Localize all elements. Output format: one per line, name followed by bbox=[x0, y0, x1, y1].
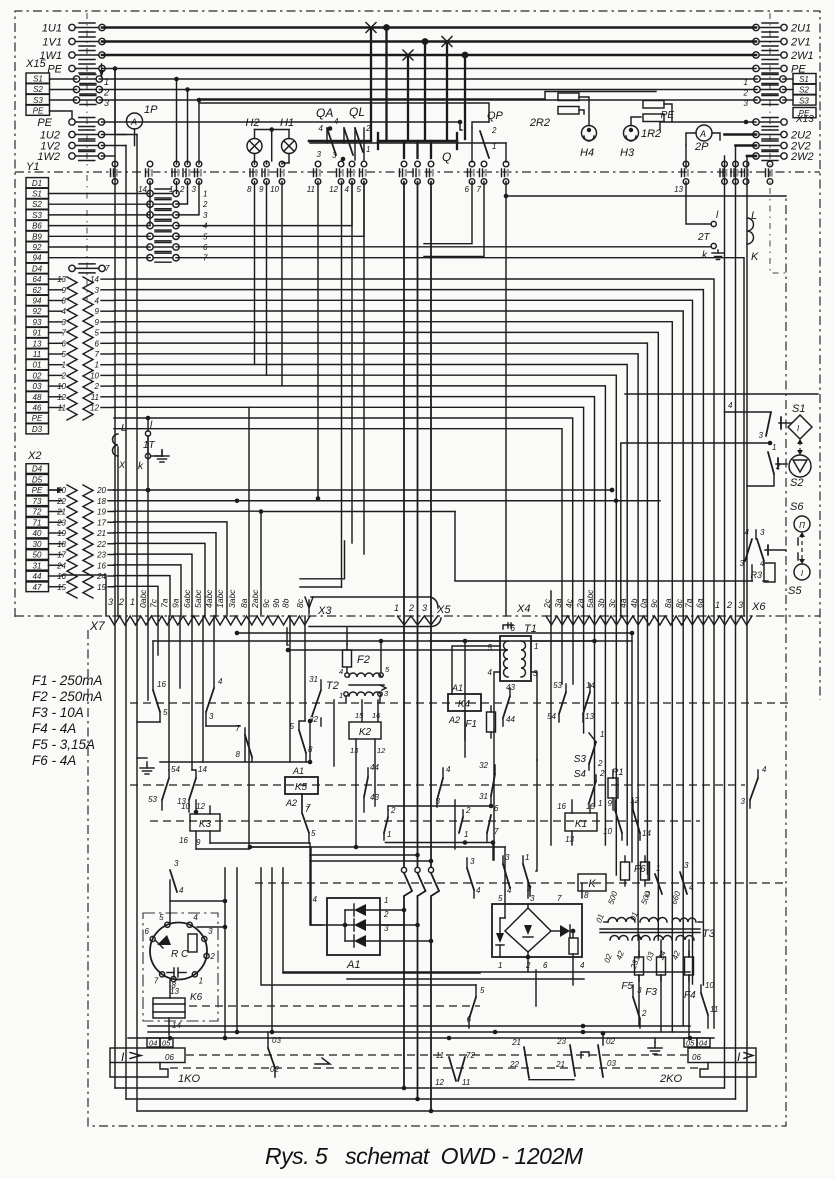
indicator S5 bbox=[794, 564, 810, 580]
svg-text:K2: K2 bbox=[359, 727, 372, 738]
frame X13 dashed line bbox=[770, 13, 786, 273]
divider contact 4 bbox=[349, 161, 355, 167]
wire X2 run y586 bbox=[114, 586, 158, 616]
svg-text:24: 24 bbox=[56, 561, 66, 570]
wire row S3 left bbox=[50, 99, 77, 101]
fuse F2 bbox=[343, 650, 352, 667]
svg-text:1: 1 bbox=[339, 691, 343, 700]
wire lamp top bus bbox=[255, 129, 290, 131]
svg-text:8a: 8a bbox=[663, 598, 673, 608]
divider contact 5 bbox=[361, 161, 367, 167]
svg-text:D3: D3 bbox=[32, 425, 43, 434]
wire power drop x=447 bbox=[446, 42, 448, 140]
svg-text:1: 1 bbox=[534, 642, 538, 651]
svg-text:S2: S2 bbox=[790, 477, 803, 489]
svg-text:4: 4 bbox=[488, 668, 493, 677]
svg-text:7: 7 bbox=[477, 185, 482, 194]
wire X2 row 18 bbox=[49, 500, 63, 502]
wire row7 right bbox=[176, 258, 744, 616]
svg-text:B9: B9 bbox=[32, 232, 42, 241]
svg-text:5: 5 bbox=[498, 894, 503, 903]
svg-text:S3: S3 bbox=[799, 96, 809, 105]
svg-text:X: X bbox=[118, 460, 126, 470]
svg-text:19: 19 bbox=[57, 529, 66, 538]
svg-text:4: 4 bbox=[179, 886, 184, 895]
svg-text:24: 24 bbox=[96, 572, 106, 581]
svg-text:10: 10 bbox=[57, 382, 66, 391]
svg-text:7: 7 bbox=[95, 350, 100, 359]
RC pin 3 bbox=[202, 936, 207, 941]
wire row6 right bbox=[176, 246, 711, 248]
wire power drop x=408 bbox=[407, 55, 409, 139]
svg-text:06: 06 bbox=[692, 1053, 701, 1062]
wire X2 run y532 bbox=[114, 533, 216, 616]
wire feeder n bbox=[638, 975, 640, 1026]
svg-text:48: 48 bbox=[33, 393, 42, 402]
svg-text:12: 12 bbox=[435, 1078, 444, 1087]
svg-text:QL: QL bbox=[349, 105, 365, 119]
svg-text:X15: X15 bbox=[25, 58, 46, 70]
wire T1 bottom pins bbox=[494, 672, 500, 730]
contact 1 2 f bbox=[655, 874, 662, 894]
svg-text:9: 9 bbox=[95, 307, 100, 316]
wire Y1 row 6 bbox=[49, 246, 151, 248]
svg-text:1: 1 bbox=[62, 361, 66, 370]
wire vertical x158 bbox=[157, 616, 159, 655]
wire rail 979 bbox=[347, 978, 584, 980]
svg-text:3: 3 bbox=[95, 286, 100, 295]
svg-text:21: 21 bbox=[96, 529, 106, 538]
resistor R1 bbox=[608, 778, 618, 798]
wire corner d bbox=[271, 868, 273, 1032]
wire X2 row 20 bbox=[49, 489, 63, 491]
svg-text:3: 3 bbox=[740, 559, 745, 568]
svg-text:2abc: 2abc bbox=[250, 589, 260, 609]
wire vertical x747 bbox=[746, 156, 748, 1111]
svg-text:H3: H3 bbox=[620, 147, 635, 159]
bridge cap bbox=[569, 938, 578, 954]
svg-text:11: 11 bbox=[58, 404, 66, 413]
contactor Q pole bbox=[403, 141, 405, 158]
svg-text:S2: S2 bbox=[799, 86, 809, 95]
svg-text:1: 1 bbox=[199, 976, 203, 985]
svg-text:04: 04 bbox=[699, 1039, 707, 1048]
connector frame arrow bbox=[305, 597, 313, 608]
svg-text:7c: 7c bbox=[149, 598, 159, 608]
svg-text:3: 3 bbox=[505, 853, 510, 862]
labels 04 05 bbox=[147, 1038, 160, 1047]
svg-text:30: 30 bbox=[33, 540, 42, 549]
contactor Q pole bbox=[430, 141, 432, 158]
wire top feed a bbox=[237, 632, 632, 634]
wire Y1 row 5 bbox=[49, 235, 151, 237]
svg-text:01: 01 bbox=[33, 361, 42, 370]
svg-text:F4: F4 bbox=[684, 990, 696, 1001]
wire corner e bbox=[283, 868, 480, 973]
svg-text:4b: 4b bbox=[629, 598, 639, 608]
svg-text:K3: K3 bbox=[199, 819, 212, 830]
svg-text:1: 1 bbox=[384, 896, 388, 905]
junction crimp bbox=[366, 23, 376, 33]
svg-text:9: 9 bbox=[259, 185, 264, 194]
svg-text:K6: K6 bbox=[190, 992, 203, 1003]
svg-text:2: 2 bbox=[179, 185, 185, 194]
terminal Y1 93 bbox=[26, 317, 49, 327]
frame X1 dashed line bbox=[86, 175, 88, 300]
svg-text:A2: A2 bbox=[285, 798, 297, 808]
svg-text:1R2: 1R2 bbox=[641, 128, 661, 140]
RC diode bbox=[157, 935, 171, 945]
divider contact 3 bbox=[196, 161, 202, 167]
wire power cont bbox=[403, 896, 405, 1088]
svg-text:64: 64 bbox=[33, 275, 42, 284]
svg-text:T3: T3 bbox=[702, 928, 716, 940]
svg-text:4: 4 bbox=[313, 895, 318, 904]
svg-text:3: 3 bbox=[174, 859, 179, 868]
lamp H4 bbox=[582, 126, 597, 141]
wire feeder g bbox=[310, 843, 322, 925]
terminal Y1 11 bbox=[26, 349, 49, 359]
svg-text:93: 93 bbox=[33, 318, 42, 327]
terminal box left S3 bbox=[26, 94, 50, 104]
terminal X2 30 bbox=[26, 539, 49, 549]
wire vertical x148 bbox=[147, 436, 149, 700]
wire Y1 row 7 bbox=[49, 257, 151, 259]
svg-text:7: 7 bbox=[62, 329, 67, 338]
terminal X2 72 bbox=[26, 507, 49, 517]
wire bridge top bbox=[527, 904, 529, 908]
wire R3 run bbox=[455, 580, 752, 582]
wire X2 row 23 bbox=[49, 554, 63, 556]
output terminal 2V1 bbox=[753, 38, 759, 44]
wire rail 806 bbox=[388, 805, 491, 807]
svg-text:11: 11 bbox=[436, 1051, 444, 1060]
junction bbox=[383, 24, 390, 31]
terminal X2 47 bbox=[26, 582, 49, 592]
fuse F1 bbox=[487, 712, 496, 732]
terminal Y1 S1 bbox=[26, 188, 49, 198]
svg-text:15: 15 bbox=[57, 583, 66, 592]
terminal Y1 S3 bbox=[26, 210, 49, 220]
svg-text:3: 3 bbox=[203, 211, 208, 220]
svg-text:1KO: 1KO bbox=[178, 1073, 200, 1085]
svg-text:S2: S2 bbox=[33, 85, 43, 94]
svg-text:X5: X5 bbox=[436, 604, 451, 616]
svg-text:3: 3 bbox=[738, 600, 743, 610]
cable harness zigzag Y1 bbox=[67, 277, 77, 420]
svg-text:21: 21 bbox=[555, 1060, 565, 1069]
svg-text:6: 6 bbox=[543, 961, 548, 970]
svg-text:T2: T2 bbox=[326, 680, 339, 692]
wire run y353 bbox=[114, 354, 638, 616]
output terminal PE bbox=[753, 65, 759, 71]
ground 1T bbox=[151, 455, 162, 457]
terminal Y1 92 bbox=[26, 242, 49, 252]
RC pin 6 bbox=[150, 936, 155, 941]
svg-text:72: 72 bbox=[33, 508, 42, 517]
svg-text:D5: D5 bbox=[32, 475, 43, 484]
wire corner c bbox=[261, 868, 476, 985]
wire 1W2 bend bbox=[102, 155, 116, 157]
svg-text:20: 20 bbox=[96, 486, 106, 495]
frame divider dash-dot line bbox=[15, 171, 820, 173]
svg-text:3: 3 bbox=[741, 797, 746, 806]
connector baseline dash-dot bbox=[15, 615, 820, 617]
indicator S6 bbox=[794, 516, 810, 532]
svg-text:S3: S3 bbox=[33, 96, 43, 105]
wire rail 1032 bbox=[148, 1031, 700, 1033]
wire PE right net bbox=[460, 122, 462, 130]
wire corner a bbox=[224, 868, 226, 1038]
svg-text:K4: K4 bbox=[458, 699, 471, 710]
svg-text:X13: X13 bbox=[795, 114, 814, 125]
terminal Y1 D1 bbox=[26, 178, 49, 188]
svg-text:2: 2 bbox=[491, 126, 497, 135]
svg-text:8b: 8b bbox=[281, 598, 291, 608]
wire feeder f bbox=[454, 800, 456, 849]
svg-text:4: 4 bbox=[762, 765, 767, 774]
suppressor RC frame bbox=[143, 913, 218, 1021]
bus dashed 2 bbox=[130, 784, 745, 786]
wire row2 up bbox=[176, 182, 188, 205]
svg-text:4: 4 bbox=[507, 886, 512, 895]
svg-text:9b: 9b bbox=[271, 598, 281, 608]
wire vertical x658.3 bbox=[657, 616, 659, 940]
svg-text:A1: A1 bbox=[292, 766, 304, 776]
wire X2 row 15 bbox=[49, 586, 63, 588]
wire 1U2 bend bbox=[102, 134, 138, 136]
svg-text:1: 1 bbox=[715, 600, 720, 610]
contactor Q pole bbox=[416, 141, 418, 158]
svg-text:X2: X2 bbox=[27, 450, 41, 462]
svg-text:2W1: 2W1 bbox=[790, 50, 814, 62]
svg-text:1: 1 bbox=[130, 597, 135, 607]
wire feeder i bbox=[535, 970, 537, 1006]
wire feeder c bbox=[464, 641, 466, 757]
divider contact 12 bbox=[338, 161, 344, 167]
winding T3 lower bbox=[610, 936, 628, 941]
wire row4 right bbox=[176, 182, 352, 226]
terminal X2 D4 bbox=[26, 464, 49, 474]
wire vertical x180 bbox=[179, 616, 181, 688]
wire run y375 bbox=[114, 375, 616, 616]
svg-text:17: 17 bbox=[97, 518, 106, 527]
wire Y1 zig row 11 bbox=[49, 396, 63, 398]
svg-text:92: 92 bbox=[33, 243, 42, 252]
wire phase 1U1 to 2U1 bbox=[102, 26, 756, 29]
svg-text:02: 02 bbox=[606, 1037, 615, 1046]
svg-text:11: 11 bbox=[710, 1005, 718, 1014]
wire run y279 bbox=[114, 279, 714, 616]
svg-text:PE: PE bbox=[33, 107, 44, 116]
wire vertical x562 bbox=[561, 616, 563, 684]
wire Q thin bus bbox=[310, 142, 506, 144]
wire Y1 zig row 9 bbox=[49, 321, 63, 323]
wire power vertical x417.5 bbox=[417, 182, 419, 868]
svg-text:4: 4 bbox=[62, 307, 67, 316]
terminal Y1 13 bbox=[26, 338, 49, 348]
wire vertical x616.3 bbox=[615, 616, 617, 875]
wire Y1 zig row 10 bbox=[49, 374, 63, 376]
wire power vertical x431 bbox=[430, 182, 432, 868]
wire feeder b bbox=[244, 735, 246, 762]
terminal box left S2 bbox=[26, 84, 50, 94]
svg-text:4: 4 bbox=[319, 124, 324, 133]
svg-text:4: 4 bbox=[446, 765, 451, 774]
svg-text:2W2: 2W2 bbox=[790, 151, 814, 163]
svg-text:T1: T1 bbox=[524, 623, 537, 635]
svg-text:4: 4 bbox=[580, 961, 585, 970]
terminal Y1 01 bbox=[26, 360, 49, 370]
terminal X2 73 bbox=[26, 496, 49, 506]
wire vertical x169 bbox=[168, 616, 170, 770]
relay 1KO box2 bbox=[110, 1063, 168, 1078]
resistor R3 bbox=[764, 563, 775, 582]
svg-text:9c: 9c bbox=[261, 598, 271, 608]
svg-text:S1: S1 bbox=[32, 190, 42, 199]
wire rail y628 bbox=[287, 628, 288, 645]
svg-text:X7: X7 bbox=[89, 619, 106, 633]
bridge diamond bbox=[505, 908, 551, 952]
junction crimp bbox=[403, 50, 413, 60]
terminal X2 40 bbox=[26, 528, 49, 538]
input terminal 1W1 bbox=[69, 52, 75, 58]
svg-text:1: 1 bbox=[203, 190, 207, 199]
svg-text:8: 8 bbox=[584, 891, 589, 900]
diode bbox=[354, 904, 366, 916]
svg-text:14: 14 bbox=[138, 185, 147, 194]
svg-text:4: 4 bbox=[193, 913, 198, 922]
bus dashed 1 bbox=[130, 702, 790, 704]
wire feeder e bbox=[536, 760, 537, 871]
frame X15 dashed line bbox=[86, 13, 88, 168]
wire S1-S2 run bbox=[621, 443, 770, 616]
terminal Y1 62 bbox=[26, 285, 49, 295]
connector X4X6 teeth bbox=[546, 616, 752, 625]
wire Y1 zig row 9 bbox=[49, 310, 63, 312]
svg-text:X6: X6 bbox=[751, 601, 766, 613]
svg-text:2a: 2a bbox=[575, 598, 585, 609]
svg-text:1abc: 1abc bbox=[215, 589, 225, 608]
svg-text:A: A bbox=[130, 117, 137, 127]
link S6-S5 dashed bbox=[801, 534, 803, 562]
divider contact x506 bbox=[503, 161, 509, 167]
svg-text:9: 9 bbox=[95, 318, 100, 327]
svg-text:8: 8 bbox=[236, 750, 241, 759]
svg-text:3: 3 bbox=[684, 861, 689, 870]
wire vertical x290 bbox=[289, 616, 291, 762]
wire A1 left bbox=[250, 847, 311, 925]
connector X5 teeth bbox=[398, 616, 438, 625]
wire power drop x=425 bbox=[424, 42, 426, 140]
terminal Y1 94 bbox=[26, 253, 49, 263]
terminal Y1 B6 bbox=[26, 220, 49, 230]
relay 2KO box bbox=[688, 1048, 756, 1063]
terminal Y1 64 bbox=[26, 274, 49, 284]
svg-text:15: 15 bbox=[97, 583, 106, 592]
divider contact 9 bbox=[264, 161, 270, 167]
svg-text:PE: PE bbox=[37, 117, 52, 129]
terminal Y1 46 bbox=[26, 402, 49, 412]
svg-text:PE: PE bbox=[32, 486, 43, 495]
wire row5 right bbox=[176, 182, 364, 237]
wire vertical x703.4 bbox=[702, 616, 704, 985]
svg-text:4c: 4c bbox=[564, 598, 574, 608]
svg-text:8c: 8c bbox=[674, 598, 684, 608]
wire bottom rail 1 bbox=[115, 1087, 725, 1089]
svg-text:06: 06 bbox=[165, 1053, 174, 1062]
wire X2 run y554 bbox=[114, 554, 192, 616]
wire row S2 across bbox=[99, 89, 757, 91]
indicator S2 circle bbox=[789, 455, 811, 477]
wire rail 847 bbox=[250, 846, 505, 848]
wire run 407 bbox=[114, 407, 584, 616]
svg-text:21: 21 bbox=[511, 1038, 521, 1047]
transformer T1 bbox=[500, 636, 531, 681]
svg-text:Π: Π bbox=[799, 521, 805, 530]
svg-text:31: 31 bbox=[479, 792, 488, 801]
svg-text:A1: A1 bbox=[346, 959, 360, 971]
wire 1T drops bbox=[117, 447, 119, 616]
divider contact 7 bbox=[481, 161, 487, 167]
wire run y343 bbox=[114, 343, 647, 616]
svg-text:5: 5 bbox=[357, 185, 362, 194]
svg-text:1: 1 bbox=[600, 730, 604, 739]
bus dashed rail A bbox=[186, 1054, 687, 1056]
wire power drop x=465 bbox=[464, 55, 466, 139]
wire rail 972 bbox=[283, 971, 690, 973]
svg-text:18: 18 bbox=[97, 497, 106, 506]
svg-text:S3: S3 bbox=[574, 754, 587, 765]
divider contact 14 bbox=[147, 161, 153, 167]
wire feeder m bbox=[638, 935, 640, 957]
svg-text:4a: 4a bbox=[618, 598, 628, 608]
wire vertical x305 bbox=[304, 616, 306, 721]
wire vertical x573 bbox=[572, 616, 574, 684]
svg-text:44: 44 bbox=[506, 715, 515, 724]
svg-text:10: 10 bbox=[270, 185, 279, 194]
wire row3 up bbox=[176, 182, 199, 215]
wire vertical x627.2 bbox=[626, 616, 628, 845]
divider contact 11 bbox=[315, 161, 321, 167]
wire Y1 row 1 bbox=[49, 193, 151, 195]
svg-text:S4: S4 bbox=[574, 769, 587, 780]
svg-text:21: 21 bbox=[56, 508, 66, 517]
wire vertical x714 bbox=[713, 616, 715, 1028]
svg-text:8: 8 bbox=[62, 297, 67, 306]
svg-text:2R2: 2R2 bbox=[529, 117, 550, 129]
svg-text:62: 62 bbox=[33, 286, 42, 295]
svg-text:4: 4 bbox=[334, 117, 339, 126]
input terminal 1U1 bbox=[69, 24, 75, 30]
wire 2W2 bend bbox=[747, 155, 756, 158]
wire vertical x724.5 bbox=[724, 156, 726, 1088]
output terminal 2W1 bbox=[753, 52, 759, 58]
terminal X2 31 bbox=[26, 560, 49, 570]
svg-text:3: 3 bbox=[192, 185, 197, 194]
svg-text:1: 1 bbox=[366, 145, 370, 154]
svg-text:5: 5 bbox=[311, 829, 316, 838]
terminal Y1 S2 bbox=[26, 199, 49, 209]
divider contact x770 bbox=[767, 161, 773, 167]
wire run y396 bbox=[114, 397, 595, 616]
svg-text:13: 13 bbox=[33, 339, 42, 348]
wire X2 row 19 bbox=[49, 511, 63, 513]
wire QP drops bbox=[424, 182, 472, 244]
svg-text:3c: 3c bbox=[607, 598, 617, 608]
connector frame X3-X5 bottom bbox=[309, 618, 441, 627]
svg-text:3: 3 bbox=[760, 528, 765, 537]
